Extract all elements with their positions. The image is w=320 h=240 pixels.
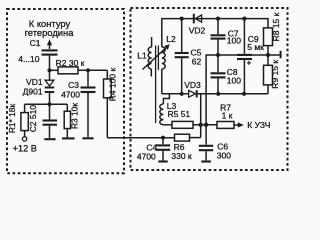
ground [44, 138, 55, 140]
ground [201, 160, 211, 162]
capacitor C1 [42, 50, 58, 54]
svg-text:330 к: 330 к [171, 151, 192, 161]
resistor R1 [21, 113, 28, 131]
svg-text:+12 В: +12 В [13, 143, 37, 153]
node: arrow to heterodyne circuit [47, 39, 52, 49]
svg-text:Д901: Д901 [23, 87, 43, 97]
node [216, 53, 220, 57]
node [47, 68, 51, 72]
node [161, 136, 165, 140]
svg-text:R2 30 к: R2 30 к [56, 58, 85, 68]
node [47, 102, 51, 106]
svg-text:R3 10к: R3 10к [69, 103, 79, 129]
wire [78, 69, 107, 71]
wire [197, 93, 268, 95]
wire (AF row) [193, 124, 217, 126]
resistor R6 [175, 134, 190, 141]
capacitor C6 [199, 125, 213, 161]
ground [158, 160, 167, 162]
wire (R6 riser to VD3 rail) [200, 94, 202, 138]
inductor L1 [148, 37, 151, 77]
svg-text:1 к: 1 к [222, 111, 233, 121]
wire [24, 131, 26, 137]
wire (VD3 rail) [162, 93, 189, 95]
svg-text:C1: C1 [30, 38, 41, 48]
svg-text:гетеродина: гетеродина [25, 27, 75, 38]
core [155, 46, 157, 124]
wire [106, 98, 108, 138]
wire [267, 55, 269, 65]
node [242, 92, 246, 96]
resistor R2 [58, 67, 78, 74]
svg-text:300: 300 [217, 151, 231, 161]
svg-text:62: 62 [192, 56, 202, 66]
ground [82, 137, 93, 139]
right dashed box (detector unit) [131, 8, 288, 170]
svg-text:L2: L2 [166, 34, 176, 44]
inductor L3 [160, 94, 172, 125]
svg-text:R4 100 к: R4 100 к [108, 67, 118, 101]
svg-text:4700: 4700 [137, 151, 156, 161]
capacitor C9 (electrolytic) [237, 19, 252, 94]
terminal +12V [22, 137, 26, 141]
capacitor C3 [81, 70, 96, 137]
node [216, 92, 220, 96]
svg-text:VD3: VD3 [184, 80, 201, 90]
resistor R4 [104, 79, 112, 98]
resistor R3 [64, 104, 70, 137]
wire [106, 70, 108, 79]
svg-text:C2 510: C2 510 [28, 105, 38, 132]
node [204, 123, 208, 127]
wire [50, 69, 59, 71]
wire [161, 69, 163, 94]
svg-text:VD2: VD2 [189, 26, 206, 36]
ground [62, 137, 75, 139]
svg-text:L1: L1 [137, 50, 147, 60]
capacitor C8 [211, 55, 226, 94]
svg-text:R9 15 к: R9 15 к [270, 60, 280, 89]
node [216, 17, 220, 21]
resistor R7 [217, 122, 234, 129]
diode VD3 [189, 90, 197, 97]
varicap VD1 [45, 70, 54, 104]
wire [267, 85, 269, 94]
wire [267, 46, 269, 55]
diode VD2 [194, 14, 202, 24]
svg-text:R8 15 к: R8 15 к [271, 12, 281, 41]
node [180, 17, 184, 21]
node [242, 17, 246, 21]
wire [24, 104, 26, 112]
capacitor C2 [43, 104, 58, 138]
wire + ground (R8/R9 midpoint) [268, 54, 280, 56]
wire [49, 56, 51, 71]
node [266, 53, 270, 57]
node [86, 68, 90, 72]
wire (rail into right box) [107, 137, 174, 139]
svg-text:5 мк: 5 мк [247, 42, 264, 52]
svg-text:4...10: 4...10 [18, 54, 40, 64]
wire [25, 103, 68, 105]
left dashed box (mixer unit) [7, 9, 124, 173]
svg-text:К УЗЧ: К УЗЧ [247, 120, 270, 130]
node [199, 123, 203, 127]
tuning arrow [143, 44, 170, 69]
capacitor C4 [156, 138, 170, 161]
resistor R9 [264, 65, 273, 85]
resistor R5 [172, 121, 193, 128]
capacitor C5 [175, 19, 189, 94]
resistor R8 [264, 28, 273, 46]
wire (top rail of detector, L2 top to R8) [162, 19, 268, 47]
svg-text:R5 51: R5 51 [167, 109, 190, 119]
wire [190, 137, 201, 139]
node [180, 92, 184, 96]
svg-text:4700: 4700 [61, 90, 80, 100]
inductor L2 [162, 47, 165, 69]
wire (mid rail riser) [206, 55, 268, 125]
capacitor C7 [211, 19, 226, 55]
svg-text:R1* 18к: R1* 18к [7, 104, 17, 134]
wire + output arrow [234, 122, 244, 127]
svg-text:100: 100 [227, 36, 241, 46]
svg-text:100: 100 [227, 75, 241, 85]
